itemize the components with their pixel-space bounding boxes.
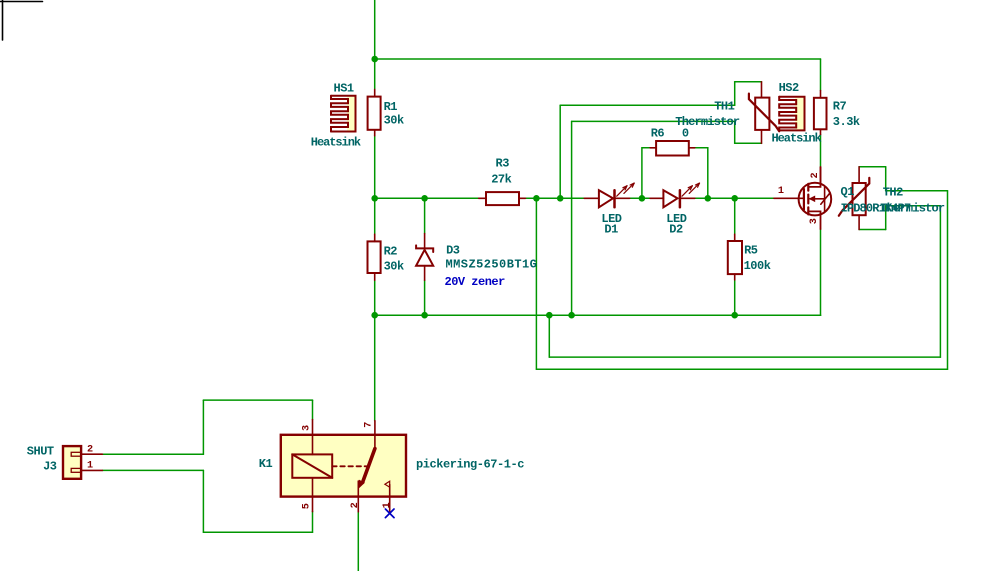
- svg-text:HS2: HS2: [779, 81, 799, 95]
- wire R2 to bus: [374, 280, 376, 315]
- junction bus R5: [731, 312, 738, 319]
- K1 pin7 inner: [374, 435, 376, 449]
- K1 pin2 stub: [357, 497, 359, 512]
- svg-text:SHUT: SHUT: [27, 444, 54, 458]
- wire outer loop bottom: [536, 368, 947, 370]
- labels R2: [384, 244, 404, 273]
- svg-text:TH2: TH2: [883, 186, 903, 200]
- K1 switch blade: [363, 449, 375, 483]
- labels Q1: [841, 185, 912, 216]
- zener diode D3: [416, 234, 433, 281]
- LED D2: [650, 183, 699, 207]
- K1 pin5 stub: [312, 497, 314, 512]
- svg-text:27k: 27k: [491, 173, 511, 187]
- wire TH1 top pin link: [735, 81, 762, 83]
- wire to relay pin5: [203, 531, 312, 533]
- svg-text:2: 2: [350, 502, 361, 508]
- junction D2 R6 node: [705, 195, 712, 202]
- svg-text:D2: D2: [669, 223, 683, 237]
- svg-text:20V zener: 20V zener: [445, 275, 506, 289]
- wire R1 to R2: [374, 136, 376, 234]
- wire R3 to D1: [525, 197, 584, 199]
- wire relay pin3 drop: [312, 400, 314, 420]
- junction R1 R2 node: [371, 195, 378, 202]
- wire D3 bottom: [424, 280, 426, 315]
- relay K1: [281, 435, 406, 497]
- thermistor TH2: [839, 167, 870, 230]
- resistor R5: [728, 234, 742, 280]
- wire outer loop right: [947, 191, 949, 369]
- wire D3 top: [424, 198, 426, 233]
- wire TH2 bottom feed: [886, 205, 941, 207]
- wire TH2 bottom corner: [885, 206, 887, 230]
- svg-text:100k: 100k: [744, 259, 771, 273]
- svg-text:7: 7: [364, 422, 375, 428]
- wire bottom bus: [375, 314, 821, 316]
- K1 dashed link: [332, 465, 366, 467]
- svg-text:R6: R6: [651, 127, 665, 141]
- resistor R3: [479, 192, 526, 205]
- labels R6: [651, 127, 689, 141]
- svg-text:D1: D1: [604, 223, 618, 237]
- Q1 pin 2 stub: [820, 167, 822, 183]
- wire bus to relay pin7: [374, 315, 376, 421]
- wire J3 pin2 riser: [202, 400, 204, 454]
- wire R5 top: [734, 198, 736, 234]
- K1 pin1 inner: [389, 485, 391, 497]
- junction bus D3: [421, 312, 428, 319]
- svg-text:Q1: Q1: [841, 185, 855, 199]
- labels TH2: [880, 186, 945, 216]
- wire R6 left: [642, 148, 650, 199]
- wire TH1 top feed: [560, 104, 735, 106]
- svg-text:R7: R7: [833, 99, 847, 113]
- sheet border corner: [0, 0, 43, 40]
- svg-text:R5: R5: [744, 244, 758, 258]
- svg-text:1: 1: [87, 461, 93, 472]
- wire TH1 left top: [734, 82, 736, 105]
- wire D2 to Q1 gate: [695, 197, 774, 199]
- heatsink HS1: [331, 96, 356, 132]
- svg-text:Heatsink: Heatsink: [772, 132, 822, 146]
- thermistor TH1: [749, 82, 779, 144]
- LED D1: [584, 183, 634, 207]
- wire TH2 top corner: [885, 167, 887, 191]
- junction R5 top: [731, 195, 738, 202]
- svg-text:J3: J3: [43, 459, 57, 473]
- labels D3: [445, 243, 538, 289]
- junction node A1: [533, 195, 540, 202]
- labels R7: [833, 99, 860, 129]
- labels K1: [259, 457, 524, 472]
- svg-text:Heatsink: Heatsink: [311, 135, 361, 149]
- J3 pin2 stub: [81, 453, 102, 455]
- K1 pin7 stub: [374, 421, 376, 435]
- svg-text:TH1: TH1: [714, 99, 734, 113]
- junction top tee: [371, 56, 378, 63]
- labels TH1: [675, 99, 740, 129]
- svg-text:2: 2: [810, 172, 821, 178]
- labels R3: [491, 157, 511, 187]
- J3 pin1 stub: [81, 469, 102, 471]
- svg-text:30k: 30k: [384, 259, 404, 273]
- labels HS1: [311, 81, 361, 149]
- wire TH1 left bottom: [734, 121, 736, 143]
- svg-text:MMSZ5250BT1G: MMSZ5250BT1G: [446, 257, 538, 271]
- svg-text:3.3k: 3.3k: [833, 115, 860, 129]
- svg-text:5: 5: [301, 503, 312, 509]
- svg-text:30k: 30k: [384, 114, 404, 128]
- wire relay pin5 rise: [312, 512, 314, 533]
- wire TH2 top pin link: [859, 166, 886, 168]
- svg-text:3: 3: [301, 425, 312, 431]
- svg-text:IPD80R1K4P7: IPD80R1K4P7: [841, 202, 912, 216]
- resistor R7: [814, 91, 827, 135]
- svg-text:K1: K1: [259, 457, 273, 471]
- svg-text:Thermistor: Thermistor: [675, 115, 740, 129]
- wire R5 bottom: [734, 280, 736, 315]
- labels R5: [744, 244, 771, 273]
- wire R7 top: [820, 59, 822, 91]
- wire Q1 source: [820, 229, 822, 315]
- wire TH2 top feed: [886, 190, 948, 192]
- K1 pin2 inner: [357, 481, 359, 497]
- wire D1 to D2: [630, 197, 651, 199]
- wire J3 pin1: [102, 469, 203, 471]
- labels D2: [666, 212, 686, 237]
- svg-text:2: 2: [87, 444, 93, 455]
- connector J3: [63, 446, 81, 479]
- no-connect X on K1 pin1: [385, 509, 394, 518]
- labels D1: [601, 212, 621, 237]
- junction dots: [371, 56, 738, 319]
- wire J3 pin2: [102, 453, 203, 455]
- wire top horizontal: [375, 58, 821, 60]
- svg-text:R3: R3: [496, 157, 510, 171]
- svg-text:HS1: HS1: [334, 81, 354, 95]
- wire R6 right: [695, 148, 708, 199]
- svg-text:pickering-67-1-c: pickering-67-1-c: [416, 458, 524, 472]
- K1 pin5 inner: [312, 478, 314, 497]
- K1 pin3 inner: [312, 435, 314, 455]
- wire node A down: [535, 198, 537, 369]
- svg-text:1: 1: [382, 502, 393, 508]
- wire bus to TH1 bottom: [571, 121, 573, 315]
- resistor R2: [368, 234, 381, 280]
- resistor R6: [650, 141, 695, 156]
- svg-text:3: 3: [809, 218, 820, 224]
- K1 pin3 stub: [312, 420, 314, 435]
- wire relay pin2 down: [357, 512, 359, 571]
- junction node A2: [557, 195, 564, 202]
- junction bus TH1: [568, 312, 575, 319]
- wire TH2 bottom pin link: [859, 229, 886, 231]
- svg-text:D3: D3: [446, 243, 460, 257]
- wire to relay pin3: [203, 399, 312, 401]
- wire node A up: [559, 105, 561, 198]
- wire inner loop right: [939, 206, 941, 357]
- junction bus R2: [371, 312, 378, 319]
- wire main horizontal left: [375, 197, 479, 199]
- wire inner loop bottom: [549, 356, 940, 358]
- wire TH1 bottom feed: [572, 120, 735, 122]
- svg-text:R2: R2: [384, 244, 398, 258]
- svg-text:R1: R1: [384, 100, 398, 114]
- junction D1 D2 node: [639, 195, 646, 202]
- labels HS2: [772, 81, 822, 146]
- wire Q1 drain: [820, 135, 822, 167]
- junction D3 top: [421, 195, 428, 202]
- labels J3: [27, 444, 57, 473]
- K1 pin1 stub: [389, 497, 391, 512]
- labels R1: [384, 100, 404, 127]
- heatsink HS2: [779, 97, 804, 131]
- wire bus to inner loop: [548, 315, 550, 357]
- wire TH1 bottom pin link: [735, 142, 762, 144]
- wire J3 pin1 drop: [202, 470, 204, 532]
- svg-text:1: 1: [778, 186, 784, 197]
- resistor R1: [368, 89, 381, 135]
- K1 coil: [292, 454, 332, 477]
- junction bus loop1: [546, 312, 553, 319]
- mosfet Q1: [774, 167, 831, 229]
